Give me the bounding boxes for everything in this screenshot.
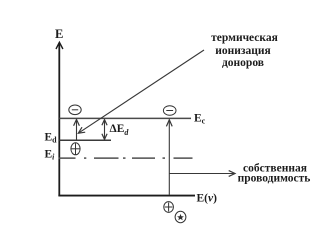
svg-text:проводимость: проводимость xyxy=(238,173,311,185)
annotation: thermal ionization of donors xyxy=(211,32,278,69)
hole (circled plus) below valence band xyxy=(164,202,174,213)
electron (circled minus) above intrinsic arrow xyxy=(163,106,176,116)
axis E (vertical energy axis with arrowhead) xyxy=(56,42,63,196)
circled star particle xyxy=(175,211,186,222)
svg-text:термическая: термическая xyxy=(211,32,278,44)
dimension arrow dEd (double-headed between Ec and Ed) xyxy=(102,120,107,140)
wire: intrinsic transition arrow (valence band up to Ec) xyxy=(166,120,172,195)
annotation: intrinsic conductivity xyxy=(238,162,311,184)
intrinsic Fermi level Ei dash-dot line xyxy=(59,157,193,159)
wire: donor ionization arrow (Ed up to Ec) xyxy=(74,119,80,140)
donor level Ed line xyxy=(59,139,111,141)
svg-text:доноров: доноров xyxy=(222,57,264,69)
wire: arrow to "собственная проводимость" (horizontal, rightward) xyxy=(169,171,235,177)
conduction band edge Ec line xyxy=(59,117,191,119)
electron (circled minus) above donor arrow xyxy=(69,105,81,115)
hole (circled plus) at donor level xyxy=(71,143,80,155)
wire: leader line "термическая ионизация доноров" (diagonal with arrowhead) xyxy=(78,50,204,133)
svg-text:E: E xyxy=(55,27,63,41)
valence band edge E(v) line (bottom of box) xyxy=(58,195,195,197)
svg-text:ионизация: ионизация xyxy=(215,45,270,57)
svg-text:E(ν): E(ν) xyxy=(197,192,218,204)
